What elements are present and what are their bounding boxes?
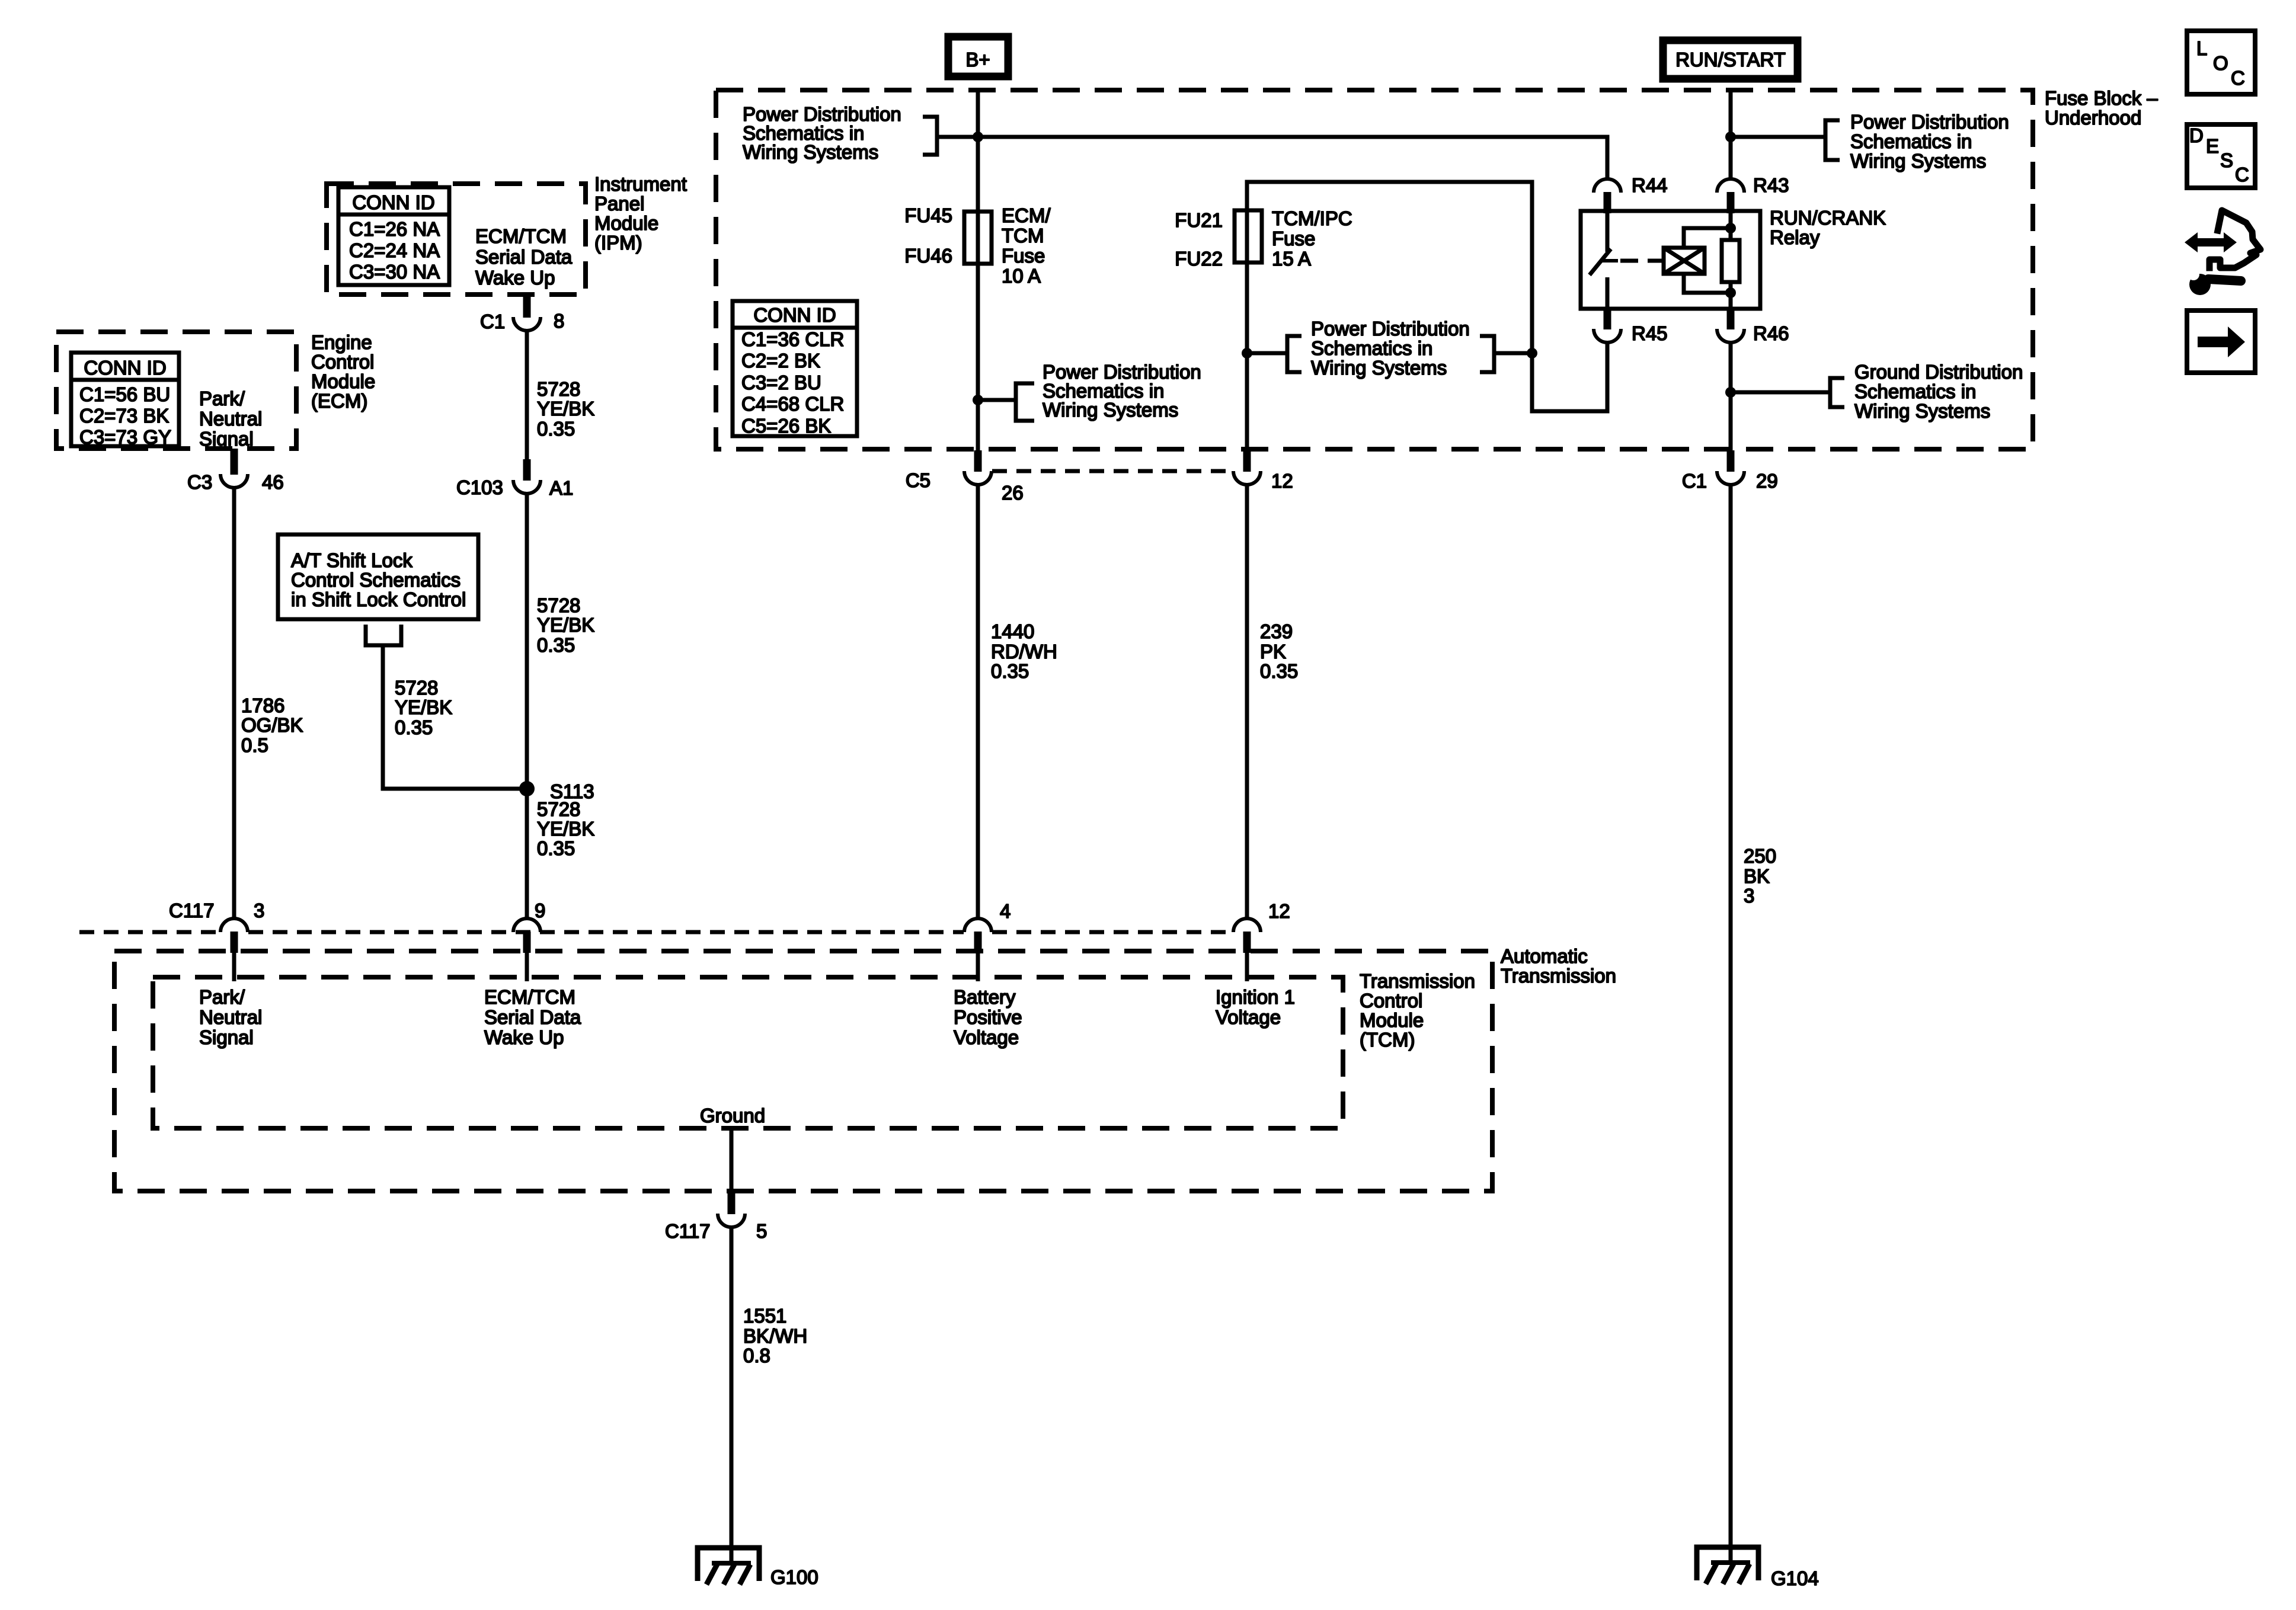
svg-text:CONN ID: CONN ID xyxy=(352,191,434,213)
svg-text:15 A: 15 A xyxy=(1272,248,1311,270)
conn id table IPM xyxy=(338,187,449,285)
svg-text:Power Distribution: Power Distribution xyxy=(1311,318,1470,340)
svg-text:S: S xyxy=(2220,149,2233,171)
svg-text:C2=73 BK: C2=73 BK xyxy=(79,405,169,427)
svg-text:12: 12 xyxy=(1271,470,1293,492)
svg-text:Control: Control xyxy=(311,351,374,373)
svg-text:C117: C117 xyxy=(665,1220,710,1242)
svg-text:Wiring Systems: Wiring Systems xyxy=(1311,357,1447,379)
svg-text:C2=24 NA: C2=24 NA xyxy=(349,239,440,261)
svg-text:CONN ID: CONN ID xyxy=(84,357,166,379)
svg-text:A1: A1 xyxy=(549,477,573,499)
node splice S113 xyxy=(519,781,535,796)
A/T shift lock reference box xyxy=(278,534,478,619)
label A/T Shift Lock Control Schematics in Shift Lock Control xyxy=(291,549,466,610)
svg-text:5728: 5728 xyxy=(537,798,580,820)
wire C1 29 down to G104 xyxy=(1729,485,1733,1564)
svg-text:C1=26 NA: C1=26 NA xyxy=(349,218,440,240)
wire relay right branch xyxy=(1729,211,1733,240)
svg-text:Automatic: Automatic xyxy=(1501,945,1588,967)
svg-text:0.35: 0.35 xyxy=(537,634,575,656)
node junction at RUN/START wire xyxy=(1725,132,1736,142)
svg-text:Schematics in: Schematics in xyxy=(1311,337,1432,359)
label Power Distribution Schematics in Wiring Systems (left) xyxy=(743,103,901,163)
svg-text:Relay: Relay xyxy=(1770,226,1820,248)
svg-text:0.35: 0.35 xyxy=(395,716,433,738)
svg-text:PK: PK xyxy=(1260,641,1286,662)
svg-text:0.8: 0.8 xyxy=(743,1345,770,1366)
connector 12 (TCM) xyxy=(1233,918,1261,953)
conn id table ECM xyxy=(71,353,179,448)
svg-text:R46: R46 xyxy=(1753,322,1789,344)
svg-text:Signal: Signal xyxy=(199,1026,254,1048)
relay linkage dashed xyxy=(1620,259,1663,263)
svg-text:C: C xyxy=(2231,67,2245,89)
label TCM/IPC Fuse 15 A xyxy=(1272,207,1352,270)
svg-text:OG/BK: OG/BK xyxy=(241,714,303,736)
label Fuse Block - Underhood xyxy=(2045,87,2158,129)
svg-text:250: 250 xyxy=(1744,845,1776,867)
wire coil bottom lead xyxy=(1684,274,1731,293)
fuse FU45/FU46 ECM/TCM Fuse 10A xyxy=(964,212,992,264)
svg-text:D: D xyxy=(2189,124,2204,146)
label Ground Distribution Schematics in Wiring Systems xyxy=(1854,361,2023,422)
ground G104 xyxy=(1697,1547,1758,1584)
svg-text:ECM/TCM: ECM/TCM xyxy=(475,225,567,247)
svg-text:YE/BK: YE/BK xyxy=(537,818,594,840)
label Transmission Control Module (TCM) xyxy=(1360,970,1475,1051)
svg-text:C117: C117 xyxy=(169,900,214,921)
wire B+ vertical feed xyxy=(976,89,980,450)
svg-text:Neutral: Neutral xyxy=(199,408,262,430)
svg-text:RUN/CRANK: RUN/CRANK xyxy=(1770,207,1886,229)
label Automatic Transmission xyxy=(1501,945,1616,987)
svg-text:Signal: Signal xyxy=(199,428,254,450)
svg-text:C103: C103 xyxy=(456,476,503,498)
svg-text:Serial Data: Serial Data xyxy=(484,1006,581,1028)
svg-text:Serial Data: Serial Data xyxy=(475,246,573,268)
wire R46 down to C1 29 xyxy=(1729,343,1733,450)
label bracket middle-left xyxy=(1287,336,1302,372)
icon adjust hand with arrow and wrench xyxy=(2185,210,2260,295)
svg-text:5728: 5728 xyxy=(395,677,438,699)
wire below connector 3 xyxy=(232,953,236,981)
svg-text:BK/WH: BK/WH xyxy=(743,1325,807,1347)
svg-text:Battery: Battery xyxy=(954,986,1016,1008)
svg-text:Control: Control xyxy=(1360,990,1422,1012)
svg-text:0.5: 0.5 xyxy=(241,734,268,756)
label RUN/CRANK Relay xyxy=(1770,207,1886,248)
svg-text:TCM: TCM xyxy=(1002,225,1044,247)
svg-text:Control Schematics: Control Schematics xyxy=(291,569,461,591)
TCM dashed box xyxy=(153,977,1343,1128)
svg-text:C1: C1 xyxy=(1682,470,1707,492)
svg-text:(ECM): (ECM) xyxy=(311,390,367,412)
svg-text:8: 8 xyxy=(554,310,564,332)
wire to G100 xyxy=(730,1227,734,1564)
label ECM/TCM Serial Data Wake Up (TCM) xyxy=(484,986,581,1048)
wire 12 down to connector 12 xyxy=(1245,485,1249,918)
label bracket left Power Distribution xyxy=(923,117,937,155)
svg-text:C5=26 BK: C5=26 BK xyxy=(741,415,831,437)
svg-text:Ground: Ground xyxy=(700,1105,765,1126)
svg-text:5728: 5728 xyxy=(537,378,580,400)
power symbol RUN/START box xyxy=(1663,40,1798,79)
svg-text:Fuse: Fuse xyxy=(1002,245,1045,267)
label Engine Control Module (ECM) xyxy=(311,331,375,412)
label wire 1551 BK/WH 0.8 xyxy=(743,1305,807,1366)
svg-text:FU45: FU45 xyxy=(904,204,952,226)
wire C1 to C103 xyxy=(525,331,529,460)
svg-text:1786: 1786 xyxy=(241,694,284,716)
label wire 250 BK 3 xyxy=(1744,845,1776,907)
svg-text:C3: C3 xyxy=(187,471,212,493)
resistor inside relay xyxy=(1722,240,1739,282)
svg-text:O: O xyxy=(2213,52,2228,74)
wire C5 down to connector 4 xyxy=(976,485,980,918)
svg-text:C: C xyxy=(2235,164,2249,185)
svg-text:in Shift Lock Control: in Shift Lock Control xyxy=(291,588,466,610)
label ECM/TCM Fuse 10 A xyxy=(1002,204,1051,287)
connector 4 xyxy=(964,918,992,953)
svg-text:Wiring Systems: Wiring Systems xyxy=(743,141,878,163)
label bracket right Power Distribution xyxy=(1825,120,1840,160)
svg-text:RUN/START: RUN/START xyxy=(1675,49,1786,71)
node junction on loop vertical xyxy=(1527,348,1537,359)
svg-text:E: E xyxy=(2206,135,2219,157)
node junction on FU46 wire xyxy=(973,395,983,405)
connector C117 3 xyxy=(220,918,248,953)
label bracket middle-right xyxy=(1480,336,1494,372)
engine control module dashed box xyxy=(56,332,296,449)
fuse block underhood dashed box xyxy=(716,90,2033,449)
svg-text:Underhood: Underhood xyxy=(2045,107,2141,129)
label Power Distribution Schematics in Wiring Systems (middle) xyxy=(1311,318,1470,379)
svg-text:RD/WH: RD/WH xyxy=(991,641,1057,662)
svg-text:Schematics in: Schematics in xyxy=(1854,380,1976,402)
svg-text:C3=30 NA: C3=30 NA xyxy=(349,261,440,283)
connector R43 xyxy=(1717,179,1744,213)
svg-text:YE/BK: YE/BK xyxy=(395,696,452,718)
svg-text:Transmission: Transmission xyxy=(1501,965,1616,987)
svg-text:Ignition 1: Ignition 1 xyxy=(1216,986,1295,1008)
svg-text:C1: C1 xyxy=(480,311,505,332)
node junction at B+ wire xyxy=(973,132,983,142)
wire fine dash C5 to 12 xyxy=(992,469,1233,473)
svg-text:46: 46 xyxy=(262,471,284,493)
svg-text:Module: Module xyxy=(594,212,658,234)
svg-text:BK: BK xyxy=(1744,865,1770,887)
svg-text:3: 3 xyxy=(1744,885,1754,907)
svg-text:G104: G104 xyxy=(1771,1567,1819,1589)
svg-text:9: 9 xyxy=(535,900,545,921)
svg-text:0.35: 0.35 xyxy=(537,418,575,440)
svg-text:R43: R43 xyxy=(1753,174,1789,196)
wire fine dash C117 inline connector row xyxy=(79,930,220,934)
svg-text:239: 239 xyxy=(1260,620,1293,642)
svg-text:C4=68 CLR: C4=68 CLR xyxy=(741,393,844,415)
svg-text:3: 3 xyxy=(254,900,264,921)
svg-text:C1=36 CLR: C1=36 CLR xyxy=(741,328,844,350)
svg-text:4: 4 xyxy=(1000,900,1011,922)
instrument panel module dashed box xyxy=(327,184,586,295)
svg-text:0.35: 0.35 xyxy=(1260,660,1298,682)
svg-text:ECM/: ECM/ xyxy=(1002,204,1051,226)
svg-text:Park/: Park/ xyxy=(199,388,245,409)
svg-text:(TCM): (TCM) xyxy=(1360,1029,1415,1051)
svg-text:G100: G100 xyxy=(770,1566,818,1588)
wire junction to left bracket xyxy=(1247,351,1286,356)
conn id table fuse block xyxy=(733,301,857,437)
wire TCM/IPC fuse loop top xyxy=(1247,182,1607,450)
svg-text:Neutral: Neutral xyxy=(199,1006,262,1028)
label Park/Neutral Signal (ECM) xyxy=(199,388,262,450)
svg-text:Wiring Systems: Wiring Systems xyxy=(1854,400,1990,422)
svg-text:Module: Module xyxy=(311,370,375,392)
svg-text:Panel: Panel xyxy=(594,193,644,215)
connector R44 xyxy=(1594,179,1621,213)
svg-text:Wake Up: Wake Up xyxy=(475,267,555,289)
svg-text:R45: R45 xyxy=(1632,322,1668,344)
label Power Distribution Schematics in Wiring Systems (fuse col) xyxy=(1043,361,1201,421)
svg-text:1551: 1551 xyxy=(743,1305,786,1327)
label wire 5728 YE/BK 0.35 (upper) xyxy=(537,378,594,440)
svg-text:CONN ID: CONN ID xyxy=(753,304,836,326)
svg-text:ECM/TCM: ECM/TCM xyxy=(484,986,575,1008)
connector 9 xyxy=(513,918,541,953)
wire main horizontal bus from bracket to R44 corner xyxy=(938,137,1607,179)
connector C1 8 xyxy=(513,296,541,331)
wire below connector 12 xyxy=(1245,953,1249,981)
node junction on FU22 wire xyxy=(1242,348,1252,359)
svg-text:L: L xyxy=(2196,37,2207,59)
svg-text:C3=73 GY: C3=73 GY xyxy=(79,426,171,448)
svg-text:FU22: FU22 xyxy=(1175,248,1223,270)
svg-text:0.35: 0.35 xyxy=(991,660,1029,682)
svg-text:Fuse: Fuse xyxy=(1272,228,1315,249)
wire A/T branch to S113 xyxy=(383,645,527,789)
power symbol B+ box xyxy=(948,37,1008,76)
connector C117 5 xyxy=(718,1193,745,1227)
fuse FU21/FU22 TCM/IPC Fuse 15A xyxy=(1235,210,1262,263)
svg-text:Instrument: Instrument xyxy=(594,173,687,195)
connector C103 A1 xyxy=(513,459,541,494)
svg-text:Voltage: Voltage xyxy=(954,1026,1019,1048)
svg-text:Wiring Systems: Wiring Systems xyxy=(1043,399,1178,421)
relay U: RUN/CRANK relay box xyxy=(1581,211,1760,309)
svg-text:C3=2 BU: C3=2 BU xyxy=(741,372,821,393)
node coil bottom junction xyxy=(1725,287,1736,298)
svg-text:YE/BK: YE/BK xyxy=(537,614,594,636)
svg-text:29: 29 xyxy=(1756,470,1778,492)
relay coil xyxy=(1664,248,1705,274)
wire below connector 9 xyxy=(525,953,529,981)
relay switch contact xyxy=(1606,211,1610,252)
label wire 5728 YE/BK 0.35 (lower) xyxy=(537,798,594,859)
svg-text:(IPM): (IPM) xyxy=(594,232,642,254)
wire junction to bracket xyxy=(978,398,1015,402)
label wire 1440 RD/WH 0.35 xyxy=(991,620,1057,682)
label wire 5728 YE/BK 0.35 (branch) xyxy=(395,677,452,738)
svg-text:TCM/IPC: TCM/IPC xyxy=(1272,207,1352,229)
wire run/start to right bracket xyxy=(1731,135,1824,139)
svg-text:FU21: FU21 xyxy=(1175,209,1223,231)
svg-text:C1=56 BU: C1=56 BU xyxy=(79,383,170,405)
wire below connector 4 xyxy=(976,953,980,981)
svg-text:Wiring Systems: Wiring Systems xyxy=(1850,150,1986,172)
icon arrow box xyxy=(2187,311,2255,373)
wire C103 to connector 9 xyxy=(525,494,529,918)
svg-text:Positive: Positive xyxy=(954,1006,1022,1028)
wire right bracket to loop xyxy=(1494,351,1532,356)
label Battery Positive Voltage xyxy=(954,986,1022,1048)
svg-text:Engine: Engine xyxy=(311,331,372,353)
label ECM/TCM Serial Data Wake Up (IPM) xyxy=(475,225,573,289)
svg-text:Transmission: Transmission xyxy=(1360,970,1475,992)
wire RUN/START vertical feed xyxy=(1729,89,1733,179)
connector C3 46 xyxy=(220,449,248,488)
label Ignition 1 Voltage xyxy=(1216,986,1295,1028)
svg-text:26: 26 xyxy=(1002,482,1024,504)
svg-text:Ground Distribution: Ground Distribution xyxy=(1854,361,2023,383)
svg-text:Module: Module xyxy=(1360,1009,1424,1031)
connector C5 26 xyxy=(964,450,992,485)
label wire 239 PK 0.35 xyxy=(1260,620,1298,682)
svg-text:0.35: 0.35 xyxy=(537,837,575,859)
wire ground lead xyxy=(730,1128,734,1193)
svg-text:YE/BK: YE/BK xyxy=(537,398,594,420)
label bracket A/T shift lock xyxy=(366,625,401,645)
icon LOC box xyxy=(2187,31,2255,94)
svg-text:Voltage: Voltage xyxy=(1216,1006,1281,1028)
svg-text:Fuse Block –: Fuse Block – xyxy=(2045,87,2158,109)
label wire 5728 YE/BK 0.35 (mid) xyxy=(537,594,594,656)
ground G100 xyxy=(698,1548,759,1585)
svg-text:5: 5 xyxy=(756,1220,767,1242)
svg-text:Schematics in: Schematics in xyxy=(1850,130,1972,152)
icon DESC box xyxy=(2187,124,2255,188)
wire coil top lead xyxy=(1684,228,1731,248)
svg-text:10 A: 10 A xyxy=(1002,265,1041,287)
label Instrument Panel Module (IPM) xyxy=(594,173,687,254)
connector R45 xyxy=(1594,308,1621,343)
label bracket ground distribution xyxy=(1830,378,1844,407)
svg-text:FU46: FU46 xyxy=(904,245,952,267)
svg-text:12: 12 xyxy=(1268,900,1290,922)
svg-text:A/T Shift Lock: A/T Shift Lock xyxy=(291,549,412,571)
svg-text:Wake Up: Wake Up xyxy=(484,1026,564,1048)
svg-text:C5: C5 xyxy=(906,469,930,491)
connector 12 (fuse block) xyxy=(1233,450,1261,485)
svg-text:Power Distribution: Power Distribution xyxy=(1850,111,2009,133)
node coil top junction xyxy=(1725,223,1736,233)
svg-text:Park/: Park/ xyxy=(199,986,245,1008)
wire C3 to connector 3 xyxy=(232,488,236,918)
wire junction to ground bracket xyxy=(1731,391,1829,395)
svg-text:5728: 5728 xyxy=(537,594,580,616)
svg-text:C2=2 BK: C2=2 BK xyxy=(741,350,820,372)
label wire 1786 OG/BK 0.5 xyxy=(241,694,303,756)
label Park/Neutral Signal (TCM) xyxy=(199,986,262,1048)
label Power Distribution Schematics in Wiring Systems (right) xyxy=(1850,111,2009,172)
svg-text:B+: B+ xyxy=(965,49,990,71)
connector C1 29 xyxy=(1717,450,1744,485)
svg-text:1440: 1440 xyxy=(991,620,1034,642)
connector R46 xyxy=(1717,308,1744,343)
svg-text:R44: R44 xyxy=(1632,174,1668,196)
node junction ground distribution xyxy=(1725,387,1736,398)
automatic transmission dashed box xyxy=(114,951,1492,1191)
label bracket FU46 Power Distribution xyxy=(1016,383,1034,421)
